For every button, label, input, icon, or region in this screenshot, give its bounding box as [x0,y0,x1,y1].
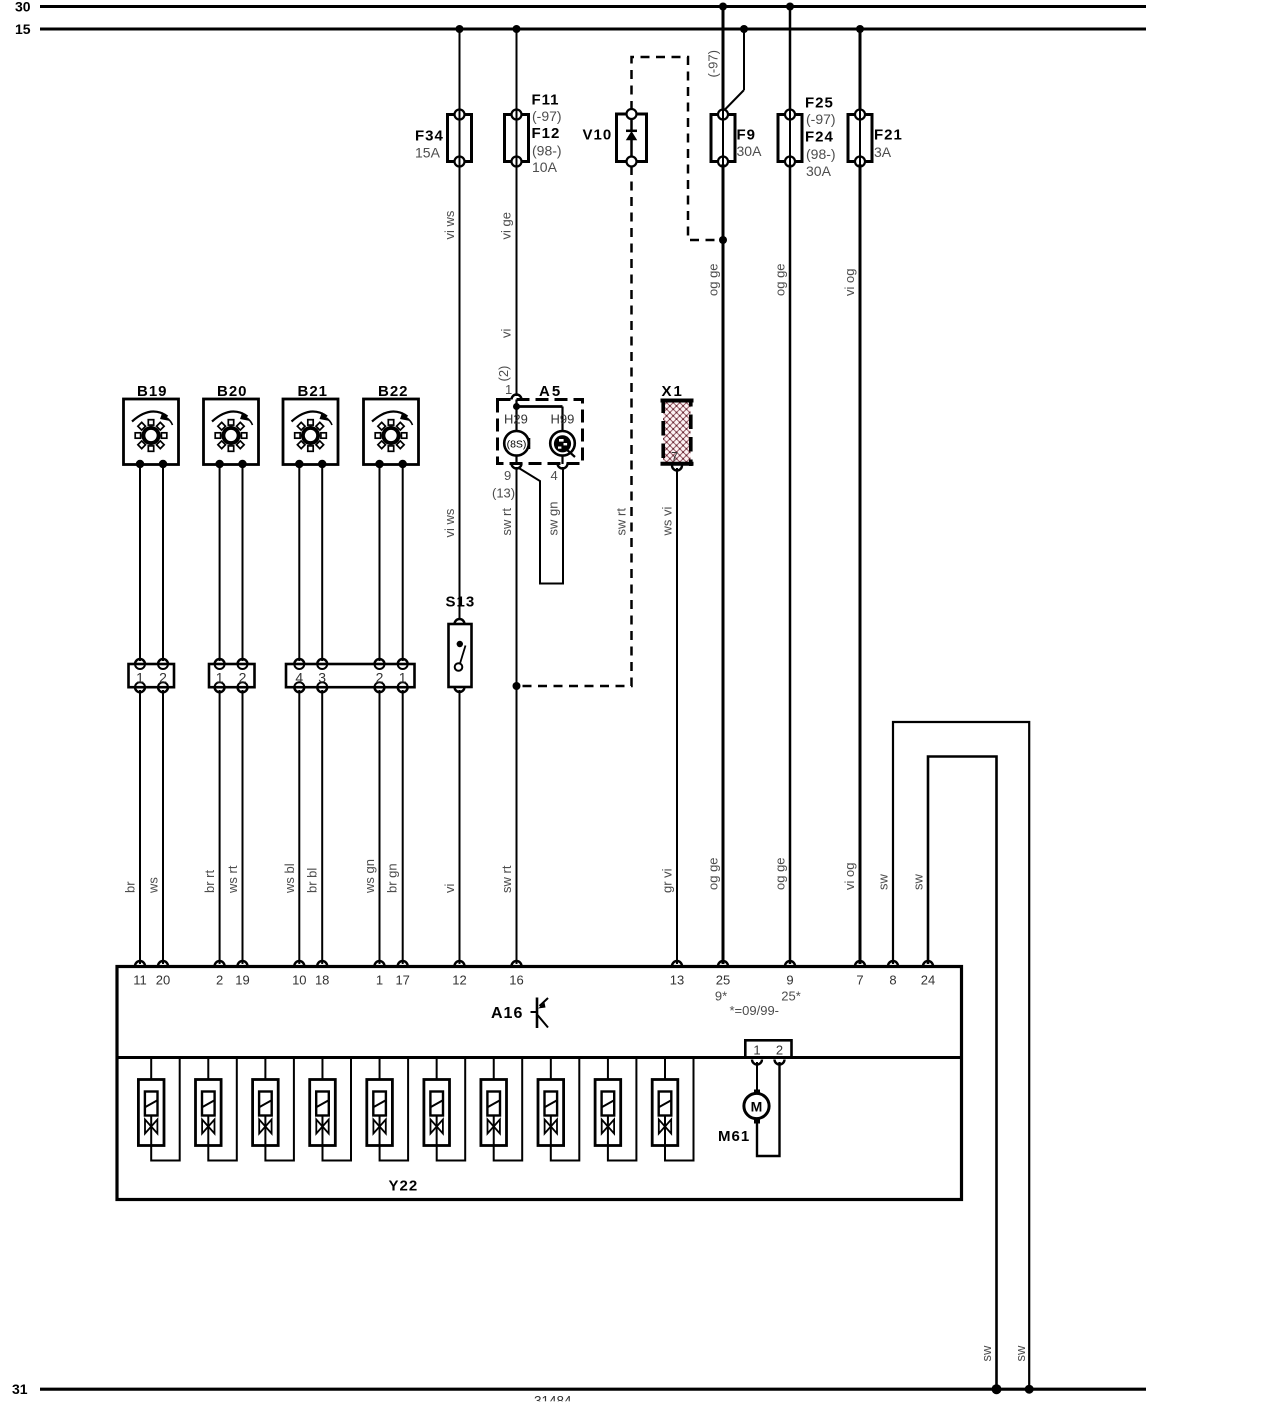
svg-text:30: 30 [15,0,31,15]
junction on bus 30 at F24 wire [786,3,794,11]
svg-text:15: 15 [15,21,31,37]
svg-text:15A: 15A [415,145,441,161]
svg-text:30A: 30A [806,163,832,179]
svg-text:F34: F34 [415,128,444,145]
svg-text:A16: A16 [491,1005,523,1022]
svg-text:V10: V10 [583,127,613,144]
node 30 (battery bus label) [15,0,31,15]
svg-text:2: 2 [216,973,223,988]
svg-text:ws gn: ws gn [362,859,377,894]
svg-text:S13: S13 [446,594,476,611]
svg-text:20: 20 [156,973,170,988]
diode V10 [583,109,647,167]
svg-text:F24: F24 [805,129,834,146]
junction F9 wire / dashed branch [719,236,727,244]
svg-text:*=09/99-: *=09/99- [730,1003,780,1018]
wire ws rt B20 pin2 down [242,467,244,661]
svg-text:1: 1 [753,1043,760,1058]
solenoid valve 4 of Y22 [310,1058,351,1161]
fuse F25 (-97) / F24 (98-) 30A [778,95,836,180]
switch S13 [446,594,476,693]
svg-text:2: 2 [239,670,247,686]
diagram number 31484 (clipped) [525,1394,585,1410]
svg-text:(98-): (98-) [532,143,562,159]
wire vi ws from F34 down to S13 [442,164,460,620]
svg-text:10A: 10A [532,159,558,175]
A16 note *=09/99- [730,1003,780,1018]
junction on bus 15 at F11 wire [513,25,521,33]
svg-text:og ge: og ge [706,857,721,890]
wire ws bl to A16 pin 10 [282,690,299,964]
wire br gn B22 pin2 down [402,467,404,661]
A16 pin 24 [921,961,935,988]
junction sw rt / dashed V10 branch [513,682,521,690]
node 15 (ignition bus label) [15,21,31,37]
svg-text:2: 2 [159,670,167,686]
svg-text:30A: 30A [737,143,763,159]
svg-text:sw rt: sw rt [499,508,514,536]
A16 pin 1 [375,961,385,988]
svg-text:vi og: vi og [842,269,857,296]
A16 pin 8 [888,961,898,988]
A16 pin 25 [716,961,730,988]
wire ws B19 pin2 down [162,467,164,661]
svg-text:9: 9 [786,973,793,988]
solenoid valve 1 of Y22 [138,1058,179,1161]
svg-text:sw: sw [1013,1345,1028,1362]
svg-text:F12: F12 [532,125,561,142]
wire br rt B20 pin1 down [219,467,221,661]
svg-text:M61: M61 [718,1128,750,1145]
svg-text:(98-): (98-) [806,146,836,162]
solenoid valve 2 of Y22 [196,1058,237,1161]
solenoid valve 10 of Y22 [652,1058,693,1161]
wire (dashed) sw rt from V10 down to junction with A5 pin 9 wire [521,166,632,686]
svg-text:13: 13 [670,973,684,988]
svg-text:7: 7 [671,449,678,464]
svg-text:11: 11 [133,973,147,988]
A16 pin 11 [133,961,147,988]
connector on Y22 for M61, pins 1 2 [745,1040,791,1064]
svg-text:og ge: og ge [773,857,788,890]
solenoid valve 9 of Y22 [595,1058,636,1161]
svg-text:vi ge: vi ge [499,212,514,239]
A16 pin 7 [855,961,865,988]
solenoid valve 8 of Y22 [538,1058,579,1161]
svg-text:sw rt: sw rt [614,508,629,536]
svg-text:br rt: br rt [202,870,217,894]
svg-text:F25: F25 [805,95,834,112]
lamp H29 [504,412,530,456]
wire (-97) branch from bus 15 to F9 top [706,29,745,111]
svg-text:F11: F11 [532,92,560,109]
wire og ge from bus 30 through fuse F9 [722,7,725,112]
A16 pin 10 [292,961,306,988]
svg-text:F21: F21 [874,127,903,144]
wire (dashed) V10 top link to F9 junction [632,57,718,240]
valve block Y22 label [389,1178,419,1195]
wire sw rt from A5 pin 9 down [499,467,517,964]
A16 pin note 9* [715,989,727,1004]
node A5 internal junction [513,400,563,432]
wire ws to A16 pin 20 [146,690,164,964]
wire ws bl B21 pin1 down [298,467,300,661]
svg-text:B22: B22 [378,383,409,400]
svg-text:F9: F9 [737,127,757,144]
A16 pin note 25* [781,989,801,1004]
svg-text:ws: ws [146,877,161,894]
wire vi from S13 to A16 pin 12 [442,690,460,964]
junction sw wire left on bus 31 [992,1384,1002,1394]
svg-text:25*: 25* [781,989,801,1004]
wire bus 31 [40,1388,1146,1391]
svg-text:24: 24 [921,973,935,988]
junction on bus 15 at (-97) branch [740,25,748,33]
svg-text:(8S): (8S) [507,439,527,451]
svg-text:3A: 3A [874,144,892,160]
svg-text:sw: sw [911,874,926,891]
wire vi og from F21 to A16 pin 7 [842,164,860,964]
connector T2a (B19) pins 1,2 [129,659,175,692]
svg-text:(13): (13) [492,486,515,501]
svg-text:br gn: br gn [385,863,400,893]
wire sw from A16 pin 8 (hook to right) [876,722,1030,1387]
svg-text:ws rt: ws rt [225,865,240,894]
wire ws gn to A16 pin 1 [362,690,380,964]
svg-text:3: 3 [318,670,326,686]
fuse F21 3A [848,110,903,167]
sensor B21 [283,383,338,468]
svg-text:12: 12 [452,973,466,988]
wire vi og from bus 15 to fuse F21 [859,29,862,111]
svg-text:9: 9 [504,468,511,483]
wire og ge from bus 30 to fuse F25/F24 [789,7,792,112]
svg-text:vi: vi [499,329,514,339]
A16 designator and symbol [491,998,548,1029]
wire bus 15 [40,28,1146,31]
A16 pin 13 [670,961,684,988]
fuse F11 (-97) / F12 (98-) 10A [505,92,562,176]
svg-text:2: 2 [776,1043,783,1058]
solenoid valve 6 of Y22 [424,1058,465,1161]
svg-text:25: 25 [716,973,730,988]
wire ws rt to A16 pin 19 [225,690,243,964]
junction on bus 15 at F34 wire [456,25,464,33]
svg-text:1: 1 [136,670,144,686]
svg-text:1: 1 [376,973,383,988]
A5 pin 9 [492,456,522,501]
svg-text:(-97): (-97) [706,50,721,77]
junction on bus 30 at F9 wire [719,3,727,11]
junction sw wire right on bus 31 [1025,1385,1034,1394]
A16 pin 19 [235,961,249,988]
svg-text:31: 31 [12,1381,28,1397]
svg-text:16: 16 [509,973,523,988]
svg-text:H29: H29 [504,412,528,427]
wire br rt to A16 pin 2 [202,690,220,964]
svg-text:19: 19 [235,973,249,988]
svg-text:ws vi: ws vi [660,507,675,537]
svg-text:(-97): (-97) [532,108,562,124]
connector X1 (hatched) [661,383,694,471]
svg-text:B19: B19 [137,383,168,400]
connector T2b (B20) pins 1,2 [209,659,255,692]
svg-text:(-97): (-97) [806,111,836,127]
wire og ge from F9 to A16 pin 25 [706,164,724,964]
svg-text:br: br [123,881,138,893]
A16 pin 18 [315,961,329,988]
svg-text:gr vi: gr vi [660,868,675,893]
wire br gn to A16 pin 17 [385,690,403,964]
wire sw gn loop from A5 pins 9 and 4 [518,467,563,584]
svg-text:vi: vi [442,884,457,894]
fuse F9 30A [711,110,762,167]
svg-text:og ge: og ge [706,263,721,296]
sensor B20 [204,383,259,468]
A5 pin 1 [496,366,522,400]
svg-text:8: 8 [889,973,896,988]
A16 pin 17 [395,961,409,988]
A16 pin 2 [215,961,225,988]
svg-text:17: 17 [395,973,409,988]
wire br to A16 pin 11 [123,690,141,964]
svg-text:B21: B21 [298,383,329,400]
svg-text:br bl: br bl [305,868,320,893]
svg-text:H99: H99 [551,412,575,427]
svg-text:1: 1 [399,670,407,686]
svg-text:B20: B20 [217,383,248,400]
wire ws gn B22 pin1 down [379,467,381,661]
lamp H99 [550,412,575,458]
wire og ge from F24 to A16 pin 9 [773,164,791,964]
wire vi ge from bus 15 to fuse F11/F12 [516,29,518,111]
svg-text:Y22: Y22 [389,1178,419,1195]
svg-text:1: 1 [216,670,224,686]
solenoid valve 5 of Y22 [367,1058,408,1161]
svg-text:18: 18 [315,973,329,988]
A16 pin 20 [156,961,170,988]
svg-text:vi ws: vi ws [442,210,457,239]
A5 pin 4 [551,456,568,484]
control unit A5 (dashed box) [498,383,583,464]
svg-text:ws bl: ws bl [282,863,297,894]
control unit A16 box [117,967,962,1200]
svg-text:sw rt: sw rt [499,865,514,893]
wire bus 30 [40,5,1146,8]
fuse F34 15A [415,110,472,167]
sensor B19 (footwell/defrost flap positioner) [124,383,179,468]
wire sw from A16 pin 24 (hook to right) [911,757,997,1388]
connector T4 (B21/B22) pins 4,3,2,1 [286,659,415,692]
A16 pin 16 [509,961,523,988]
solenoid valve 7 of Y22 [481,1058,522,1161]
A16 pin 12 [452,961,466,988]
svg-text:sw gn: sw gn [546,502,561,536]
A16 pin 9 [785,961,795,988]
wire vi ws from bus 15 to fuse F34 [459,29,461,111]
wire br B19 pin1 down [139,467,141,661]
svg-text:X1: X1 [662,383,684,400]
junction on bus 15 at F21 wire [856,25,864,33]
svg-text:og ge: og ge [773,263,788,296]
wire br bl B21 pin2 down [321,467,323,661]
node 31 (ground bus label) [12,1381,28,1397]
svg-text:10: 10 [292,973,306,988]
solenoid valve 3 of Y22 [253,1058,294,1161]
svg-text:sw: sw [876,874,891,891]
wire ws vi / gr vi from X1 to A16 pin 13 [660,468,678,964]
svg-text:1: 1 [505,382,512,397]
svg-text:9*: 9* [715,989,727,1004]
svg-text:7: 7 [856,973,863,988]
svg-text:4: 4 [295,670,303,686]
svg-text:sw: sw [979,1345,994,1362]
Y22 partition line [117,1056,962,1059]
wire vi from F12 down to A5 pin 1 [499,164,517,396]
svg-text:A5: A5 [539,383,562,400]
svg-text:4: 4 [551,468,558,483]
svg-text:vi og: vi og [842,863,857,890]
wire br bl to A16 pin 18 [305,690,323,964]
svg-text:vi ws: vi ws [442,508,457,537]
motor M61 [718,1062,780,1156]
svg-text:2: 2 [376,670,384,686]
sensor B22 [364,383,419,468]
svg-text:(2): (2) [496,366,511,382]
svg-text:M: M [751,1099,763,1115]
